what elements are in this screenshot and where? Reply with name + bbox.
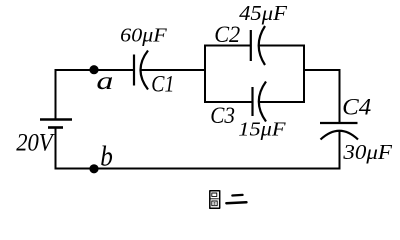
svg-text:15μF: 15μF: [238, 118, 286, 140]
svg-text:C2: C2: [214, 22, 240, 47]
svg-text:b: b: [100, 141, 113, 172]
wire top branch right of C2: [258, 45, 305, 47]
wire bottom branch right of C3: [258, 101, 305, 103]
wire top branch left of C2: [204, 45, 251, 47]
wire box to top-right corner: [304, 69, 340, 71]
svg-text:C4: C4: [342, 94, 371, 119]
wire right vertical down to C4: [339, 69, 341, 123]
svg-text:C1: C1: [151, 72, 174, 97]
capacitor C3: [253, 82, 267, 122]
svg-text:a: a: [96, 68, 113, 95]
svg-text:20V: 20V: [16, 129, 55, 156]
svg-text:45μF: 45μF: [239, 1, 287, 25]
capacitor C4: [320, 123, 358, 140]
svg-text:C3: C3: [210, 103, 235, 128]
svg-text:30μF: 30μF: [342, 140, 393, 164]
capacitor C1: [134, 51, 148, 90]
node a: [89, 65, 98, 74]
wire box right edge: [303, 45, 305, 104]
wire C1 to parallel box: [140, 69, 205, 71]
capacitor C2: [251, 26, 265, 65]
wire bottom horizontal: [56, 168, 341, 170]
wire right vertical below C4: [339, 131, 341, 170]
wire left vertical up to battery minus: [55, 128, 57, 170]
wire left vertical battery plus to top: [55, 69, 57, 120]
svg-text:60μF: 60μF: [120, 26, 168, 47]
caption glyph er (two): [226, 195, 246, 203]
wire box left edge: [204, 45, 206, 104]
node b: [89, 164, 98, 173]
caption glyph tu (figure): [209, 190, 220, 208]
battery 20V: [40, 120, 72, 128]
wire top-left horizontal (battery top to C1): [55, 69, 135, 71]
wire bottom branch left of C3: [204, 101, 253, 103]
